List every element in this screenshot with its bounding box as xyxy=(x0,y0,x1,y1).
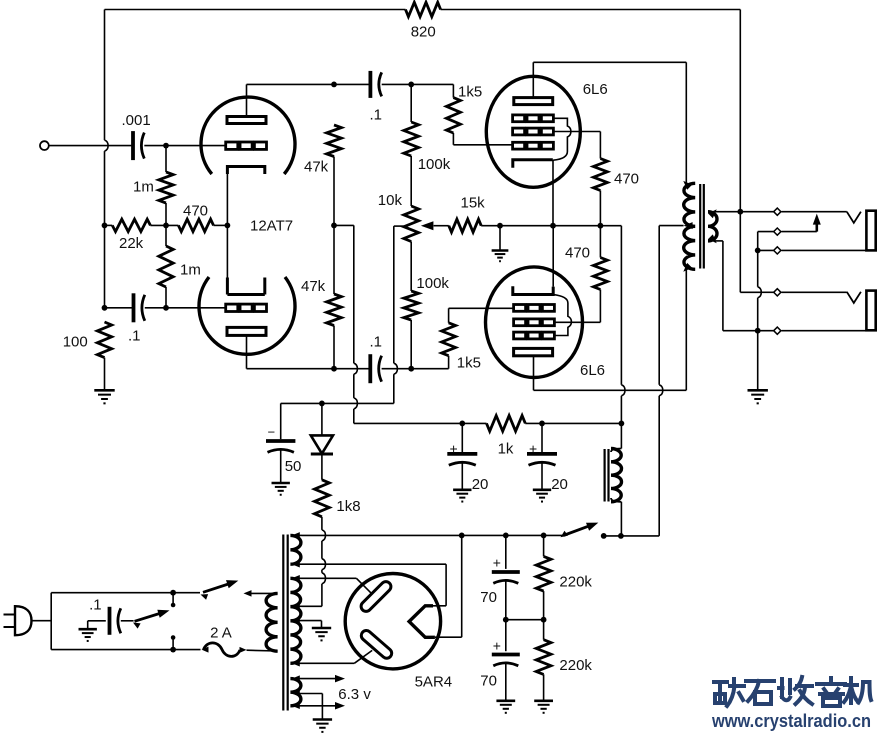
selector contact bottom xyxy=(171,635,176,649)
wire input to C .001 xyxy=(49,145,133,147)
tube 6L6b beam plates tie xyxy=(554,295,572,336)
svg-text:.1: .1 xyxy=(370,107,383,124)
tube 6L6b grids xyxy=(514,305,555,339)
junction secondary top xyxy=(737,209,743,215)
junction cap20b node xyxy=(539,421,545,427)
ground cap20a xyxy=(453,490,471,502)
resistor 1k5 lower xyxy=(442,308,514,368)
capacitor .1 line xyxy=(110,607,121,635)
junction bridge right xyxy=(541,617,547,623)
tube 5AR4 envelope xyxy=(345,574,440,669)
ground cap50 xyxy=(272,483,290,495)
ground cap20b xyxy=(533,490,551,502)
transformer PT core xyxy=(283,535,287,711)
svg-text:47k: 47k xyxy=(304,159,329,176)
wire left feedback riser xyxy=(105,10,109,308)
junction screen node xyxy=(598,223,604,229)
junction grid network node xyxy=(408,366,414,372)
triode V1a plate xyxy=(227,84,266,123)
svg-text:.1: .1 xyxy=(89,597,102,614)
svg-text:.1: .1 xyxy=(370,333,383,350)
wire bias riser xyxy=(394,226,398,403)
junction 1m node xyxy=(163,223,169,229)
svg-text:+: + xyxy=(493,638,501,654)
junction 6L6a cathode node xyxy=(550,223,556,229)
tube 5AR4 plate upper xyxy=(356,578,393,613)
wire row3 to jack1 sleeve xyxy=(782,249,867,251)
svg-text:20: 20 xyxy=(472,476,489,493)
terminal diamond row3 xyxy=(774,247,781,254)
junction 15k ground node xyxy=(497,223,503,229)
tube 6L6a grids xyxy=(513,115,554,149)
svg-text:1k: 1k xyxy=(498,441,514,458)
svg-text:820: 820 xyxy=(411,24,436,41)
capacitor 70 first xyxy=(492,535,520,619)
wire 6v top heater xyxy=(299,675,345,683)
switch power xyxy=(201,580,239,600)
inductor choke xyxy=(611,449,622,502)
junction cap70a node xyxy=(503,533,509,539)
wire B+ cap row xyxy=(354,422,622,424)
wire choke to B+ node xyxy=(620,502,622,536)
triode V1a grid xyxy=(226,142,267,149)
svg-text:1k5: 1k5 xyxy=(458,83,482,100)
wire B+ riser lower xyxy=(621,385,625,449)
watermark logo text xyxy=(714,677,871,706)
wire V1a plate rail xyxy=(247,83,371,85)
resistor 100k lower xyxy=(404,242,419,369)
wire plug to tee xyxy=(32,593,52,650)
svg-text:100k: 100k xyxy=(418,156,451,173)
svg-text:6.3 v: 6.3 v xyxy=(338,686,371,703)
wire OPT center tap xyxy=(604,226,684,536)
wire C .1 to lower grid xyxy=(145,307,226,309)
transformer OPT core xyxy=(700,184,704,269)
triode V1a cathode xyxy=(227,167,264,226)
resistor 100 xyxy=(97,322,111,390)
wire filament bottom to rail xyxy=(435,535,462,637)
junction bridge left xyxy=(503,617,509,623)
resistor 820 xyxy=(406,2,441,16)
junction input grid node xyxy=(163,143,169,149)
junction 220k node xyxy=(541,533,547,539)
wire HV top to plate xyxy=(299,577,356,579)
resistor 47k upper xyxy=(327,125,342,225)
tube 6L6b envelope xyxy=(486,267,583,378)
svg-text:2 A: 2 A xyxy=(210,625,232,642)
junction cathode node xyxy=(225,223,231,229)
wire HV bottom to plate xyxy=(299,662,354,664)
resistor 220k second xyxy=(536,620,551,701)
svg-text:6L6: 6L6 xyxy=(583,81,608,98)
wire mains bottom rail xyxy=(51,649,200,651)
junction selector bottom xyxy=(170,647,176,653)
resistor 470 cathode xyxy=(178,219,213,231)
capacitor .1 lower-left xyxy=(134,293,145,322)
wire bias row xyxy=(281,403,394,439)
svg-text:6L6: 6L6 xyxy=(580,362,605,379)
tube 5AR4 filament xyxy=(409,606,435,638)
junction sleeve row5 xyxy=(755,328,761,334)
wire V1b plate row xyxy=(247,368,449,370)
wire 470 to cathode node xyxy=(214,224,228,226)
wire bias rail to screens xyxy=(500,226,621,385)
resistor 100k upper xyxy=(404,84,419,206)
svg-text:50: 50 xyxy=(285,458,302,475)
svg-text:.1: .1 xyxy=(128,328,141,345)
transformer PT HV winding xyxy=(290,575,301,667)
wire 6L6b plate to OPT xyxy=(534,269,687,390)
resistor 1k5 upper xyxy=(446,98,512,145)
tube 6L6a plate xyxy=(514,62,553,104)
capacitor .1 bottom xyxy=(370,354,381,383)
wire 5v bottom xyxy=(299,563,302,565)
ground 100 xyxy=(94,390,114,403)
svg-text:www.crystalradio.cn: www.crystalradio.cn xyxy=(711,710,871,731)
junction lower-left node xyxy=(102,305,108,311)
junction 100k top xyxy=(408,82,414,88)
transformer PT 5v winding xyxy=(290,532,301,567)
terminal diamond row5 xyxy=(774,327,781,334)
wire bias to HV tap xyxy=(302,517,326,607)
svg-text:220k: 220k xyxy=(559,574,592,591)
wire 6L6a plate to OPT xyxy=(533,62,686,183)
wire 47k node to B+ riser xyxy=(334,225,357,423)
switch standby xyxy=(561,523,599,538)
fuse 2A xyxy=(202,643,247,657)
ground speaker common xyxy=(748,390,768,403)
ground 15k xyxy=(492,226,509,262)
resistor 1k xyxy=(487,416,526,432)
transformer OPT primary xyxy=(683,181,695,272)
svg-text:70: 70 xyxy=(480,673,497,690)
resistor 470 screen upper xyxy=(593,159,607,226)
svg-text:22k: 22k xyxy=(119,235,144,252)
resistor 1k8 xyxy=(315,480,330,517)
svg-text:15k: 15k xyxy=(461,195,486,212)
svg-text:100: 100 xyxy=(63,334,88,351)
ground 6v center tap xyxy=(313,720,332,732)
wire mains top rail xyxy=(51,592,200,594)
wire row3 xyxy=(758,249,777,251)
svg-text:100k: 100k xyxy=(416,275,449,292)
potentiometer 10k xyxy=(394,206,449,242)
resistor 15k xyxy=(449,219,500,232)
wire rail A left xyxy=(105,224,113,226)
wire row4 to jack2 xyxy=(782,291,847,293)
junction 47k upper top xyxy=(331,82,337,88)
wire row4 jack2 tip xyxy=(740,291,777,293)
wire HV bias tap xyxy=(299,605,302,607)
svg-text:470: 470 xyxy=(614,171,639,188)
resistor 1m upper xyxy=(159,146,173,226)
svg-text:20: 20 xyxy=(551,476,568,493)
jack J1 tip contact xyxy=(847,212,861,223)
capacitor .001 xyxy=(133,131,144,160)
choke core xyxy=(605,449,609,502)
svg-text:470: 470 xyxy=(183,202,208,219)
junction rectifier cathode node xyxy=(459,533,465,539)
triode V1b grid xyxy=(226,304,267,311)
capacitor 70 second xyxy=(492,620,520,701)
wire row5 xyxy=(758,330,777,332)
resistor 470 screen lower xyxy=(553,226,607,323)
selector contact top xyxy=(171,593,176,608)
wire 6L6a screen xyxy=(554,132,600,159)
ground cap70b xyxy=(496,701,515,713)
triode V1b plate xyxy=(227,327,266,368)
wire 22k to node xyxy=(150,224,178,226)
svg-text:47k: 47k xyxy=(301,278,326,295)
junction sleeve row3 xyxy=(755,248,761,254)
tube 5AR4 plate lower xyxy=(354,628,393,663)
junction 1m lower node xyxy=(163,305,169,311)
svg-text:+: + xyxy=(493,554,501,570)
svg-text:−: − xyxy=(268,425,276,440)
wire secondary bottom xyxy=(715,241,758,331)
jack J1 body xyxy=(866,211,875,251)
capacitor 50 bias xyxy=(266,441,295,483)
tube 6L6a cathode xyxy=(513,160,553,226)
AC plug xyxy=(4,606,32,635)
svg-text:470: 470 xyxy=(565,245,590,262)
svg-text:.001: .001 xyxy=(122,112,151,129)
wire row1 to jack1 xyxy=(782,211,847,213)
svg-text:5AR4: 5AR4 xyxy=(415,673,453,690)
wire speaker ground stub xyxy=(757,331,759,390)
triode V1b cathode xyxy=(227,225,264,294)
junction diode node xyxy=(319,401,325,407)
triode V1a envelope xyxy=(201,97,295,174)
junction B+ riser node xyxy=(619,421,625,427)
wire secondary top row xyxy=(715,211,778,213)
input terminal xyxy=(40,141,49,150)
wire 6v bottom heater xyxy=(299,702,345,710)
wire rectifier B+ rail xyxy=(302,534,563,536)
transformer PT primary xyxy=(266,593,278,651)
tube 6L6a beam plates tie xyxy=(553,118,571,160)
wire 5v top to rail xyxy=(299,534,302,536)
tube 6L6a envelope xyxy=(486,76,580,187)
terminal diamond row1 xyxy=(774,208,781,215)
wire cap to 1k5 corner xyxy=(382,84,454,97)
svg-text:1m: 1m xyxy=(180,262,201,279)
wire jack1 tip drop xyxy=(739,212,741,293)
junction selector top xyxy=(170,590,176,596)
jack J2 body xyxy=(866,291,875,331)
terminal diamond row4 xyxy=(774,289,781,296)
wire top feedback rail xyxy=(105,9,406,11)
wire lower grid row xyxy=(105,307,134,309)
terminal diamond row2 xyxy=(774,228,781,235)
capacitor .1 top xyxy=(370,71,381,98)
ground HV center tap xyxy=(312,628,331,640)
svg-text:+: + xyxy=(450,441,458,457)
junction V1b plate node xyxy=(331,366,337,372)
wire HV center tap xyxy=(299,621,322,628)
wire row5 to jack2 sleeve xyxy=(782,330,867,332)
junction choke B+ node xyxy=(618,533,624,539)
svg-text:220k: 220k xyxy=(559,657,592,674)
wire 6v center tap xyxy=(299,694,322,720)
capacitor 20 second xyxy=(527,423,557,489)
wire feedback drop xyxy=(739,10,741,212)
wire filament top to 5v xyxy=(302,564,446,606)
junction cap20a node xyxy=(459,421,465,427)
svg-text:10k: 10k xyxy=(378,192,403,209)
wire cap70 bridge xyxy=(506,619,544,621)
ground line filter xyxy=(79,621,106,641)
svg-text:+: + xyxy=(529,441,537,457)
wire power switch to primary xyxy=(244,590,278,597)
jack J2 tip contact xyxy=(847,292,861,303)
tap select arrow xyxy=(813,214,821,232)
svg-text:12AT7: 12AT7 xyxy=(250,218,293,235)
wire C .001 to grid xyxy=(144,145,225,147)
resistor 47k lower xyxy=(327,225,342,368)
resistor 220k first xyxy=(536,535,551,619)
transformer PT 6v winding xyxy=(290,675,301,709)
wire sleeve riser xyxy=(758,250,762,330)
junction rail A left xyxy=(102,223,108,229)
wire fuse to primary xyxy=(247,649,278,652)
switch line selector xyxy=(121,610,170,629)
junction 47k mid node xyxy=(331,223,337,229)
resistor 22k xyxy=(112,219,150,231)
tube 6L6b cathode xyxy=(513,226,553,295)
diode D1 xyxy=(311,403,333,479)
tube 6L6b plate xyxy=(514,348,553,390)
ground 220k xyxy=(534,701,553,713)
svg-text:1k8: 1k8 xyxy=(336,498,360,515)
resistor 1m lower xyxy=(159,225,173,307)
svg-text:1m: 1m xyxy=(133,179,154,196)
svg-text:70: 70 xyxy=(480,589,497,606)
triode V1b envelope xyxy=(199,277,295,354)
transformer OPT secondary xyxy=(708,209,717,243)
capacitor 20 first xyxy=(447,423,477,489)
junction standby contact xyxy=(601,533,607,539)
svg-text:1k5: 1k5 xyxy=(457,355,481,372)
wire row2 xyxy=(758,232,817,251)
